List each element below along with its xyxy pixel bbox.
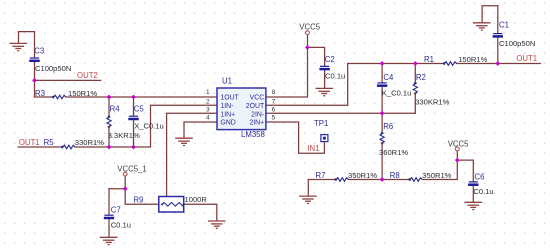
svg-text:R1: R1: [424, 55, 434, 64]
svg-text:VCC5_1: VCC5_1: [117, 164, 146, 173]
svg-text:TP1: TP1: [314, 119, 328, 128]
svg-text:R9: R9: [133, 195, 143, 204]
svg-text:C0.1u: C0.1u: [473, 187, 493, 196]
svg-text:R3: R3: [35, 89, 45, 98]
svg-text:330R1%: 330R1%: [75, 138, 104, 147]
svg-text:360R1%: 360R1%: [379, 148, 408, 157]
svg-text:OUT1: OUT1: [516, 54, 537, 63]
svg-text:OUT2: OUT2: [77, 71, 98, 80]
svg-text:OUT1: OUT1: [19, 138, 40, 147]
svg-text:350R1%: 350R1%: [422, 171, 451, 180]
svg-text:2IN-: 2IN-: [251, 111, 264, 118]
svg-text:C1: C1: [499, 21, 509, 30]
svg-text:C4: C4: [383, 73, 394, 82]
svg-text:1OUT: 1OUT: [220, 95, 239, 102]
svg-text:150R1%: 150R1%: [458, 55, 487, 64]
svg-text:R6: R6: [383, 122, 393, 131]
svg-text:2OUT: 2OUT: [246, 103, 265, 110]
svg-text:R4: R4: [110, 104, 121, 113]
svg-text:C6: C6: [475, 172, 485, 181]
svg-text:R2: R2: [416, 73, 426, 82]
svg-text:2: 2: [206, 99, 210, 106]
svg-text:4: 4: [206, 115, 210, 122]
svg-text:VCC: VCC: [250, 95, 265, 102]
svg-text:330KR1%: 330KR1%: [415, 97, 449, 106]
svg-text:C0.1u: C0.1u: [111, 220, 131, 229]
svg-text:1IN+: 1IN+: [220, 111, 235, 118]
svg-text:C2: C2: [325, 55, 335, 64]
svg-text:C0.1u: C0.1u: [325, 72, 345, 81]
svg-text:8: 8: [272, 89, 276, 96]
svg-text:R8: R8: [390, 171, 400, 180]
svg-text:VCC5: VCC5: [299, 22, 320, 31]
svg-text:3: 3: [206, 106, 210, 113]
svg-text:150R1%: 150R1%: [68, 89, 97, 98]
svg-text:3.3KR1%: 3.3KR1%: [108, 131, 140, 140]
svg-text:C5: C5: [134, 105, 145, 114]
svg-text:R7: R7: [316, 171, 326, 180]
svg-text:X_C0.1u: X_C0.1u: [134, 121, 164, 130]
svg-text:K_C0.1u: K_C0.1u: [382, 88, 412, 97]
svg-text:1000R: 1000R: [185, 195, 208, 204]
svg-text:5: 5: [272, 115, 276, 122]
svg-text:1IN-: 1IN-: [220, 103, 233, 110]
svg-text:LM358: LM358: [241, 130, 265, 139]
svg-text:2IN+: 2IN+: [249, 120, 264, 127]
svg-text:C3: C3: [34, 46, 44, 55]
svg-text:IN1: IN1: [307, 144, 319, 153]
svg-text:7: 7: [272, 99, 276, 106]
svg-text:VCC5: VCC5: [448, 139, 469, 148]
svg-text:U1: U1: [222, 77, 232, 86]
svg-text:6: 6: [272, 106, 276, 113]
svg-text:350R1%: 350R1%: [348, 171, 377, 180]
svg-text:C100p50N: C100p50N: [35, 64, 71, 73]
svg-text:GND: GND: [220, 120, 235, 127]
svg-text:R5: R5: [44, 138, 55, 147]
svg-text:C7: C7: [111, 206, 121, 215]
svg-text:1: 1: [206, 89, 210, 96]
svg-text:C100p50N: C100p50N: [499, 39, 535, 48]
